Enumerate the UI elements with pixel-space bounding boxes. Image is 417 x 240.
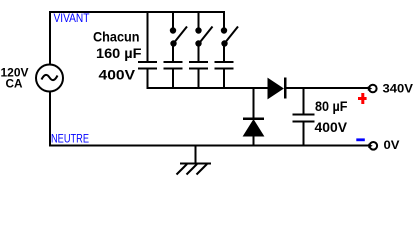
ground hatch 3	[197, 164, 208, 175]
wire S3 to C4	[223, 44, 225, 61]
wire column 3 lower	[198, 69, 200, 88]
ground bar	[180, 163, 211, 165]
wire left rail upper (bus to source)	[49, 11, 51, 64]
svg-text:0V: 0V	[384, 138, 400, 152]
diode D2 cathode bar	[243, 117, 264, 120]
AC source V1 sine symbol	[42, 75, 58, 80]
wire D2 to bottom bus	[253, 136, 255, 146]
switch S3 top contact dot	[221, 27, 227, 33]
svg-text:Chacun: Chacun	[93, 29, 140, 45]
switch S1 top contact dot	[170, 27, 176, 33]
ground hatch 1	[177, 164, 188, 175]
output terminal + circle	[369, 85, 377, 93]
wire bottom bus (NEUTRE)	[49, 145, 369, 147]
switch S2 bottom contact dot	[195, 40, 201, 46]
switch S3 blade	[226, 27, 238, 42]
capacitor C3 top plate	[189, 61, 208, 63]
wire D1 to output terminal	[286, 87, 369, 89]
wire output node down to C5	[303, 88, 305, 114]
wire capacitor-bank bottom bus to diode anode	[147, 87, 269, 89]
svg-text:VIVANT: VIVANT	[54, 11, 91, 25]
switch S3 stub	[223, 11, 225, 29]
ground hatch 2	[187, 164, 198, 175]
switch S2 blade	[201, 27, 213, 42]
svg-text:CA: CA	[6, 77, 23, 91]
label plus sign	[361, 93, 364, 104]
wire column 1 lower	[147, 69, 149, 88]
capacitor C2 top plate	[164, 61, 183, 63]
wire S1 to C2	[172, 44, 174, 61]
svg-text:160 µF: 160 µF	[96, 45, 142, 61]
switch S3 bottom contact dot	[221, 40, 227, 46]
capacitor C4 bottom plate	[215, 68, 234, 70]
output terminal + notch	[368, 86, 372, 91]
svg-text:400V: 400V	[315, 120, 348, 135]
wire C5 to bottom bus	[303, 122, 305, 146]
diode D1 series triangle	[268, 79, 283, 99]
switch S1 bottom contact dot	[170, 40, 176, 46]
capacitor C3 bottom plate	[189, 68, 208, 70]
capacitor C4 top plate	[215, 61, 234, 63]
wire column 1 (no switch)	[147, 11, 149, 61]
capacitor C5 bottom plate	[293, 121, 315, 123]
ground stem	[195, 146, 197, 163]
switch S2 stub	[198, 11, 200, 29]
diode D1 cathode bar	[284, 78, 287, 99]
wire top bus (VIVANT)	[49, 11, 225, 13]
output terminal - circle	[370, 142, 378, 150]
wire left rail lower (source to bottom bus)	[49, 92, 51, 146]
svg-text:80 µF: 80 µF	[315, 99, 348, 114]
switch S1 blade	[175, 27, 187, 42]
svg-text:340V: 340V	[383, 82, 414, 96]
capacitor C2 bottom plate	[164, 68, 183, 70]
switch S2 top contact dot	[195, 27, 201, 33]
AC source V1 circle	[36, 65, 63, 92]
capacitor C1 top plate	[138, 61, 157, 63]
wire column 4 lower	[223, 69, 225, 88]
svg-text:400V: 400V	[99, 67, 136, 83]
capacitor C5 top plate	[293, 114, 315, 116]
wire column 2 lower	[172, 69, 174, 88]
capacitor C1 bottom plate	[138, 68, 157, 70]
switch S1 stub	[172, 11, 174, 29]
svg-text:NEUTRE: NEUTRE	[51, 132, 89, 146]
label minus sign	[356, 138, 365, 141]
wire junction down to D2	[253, 88, 255, 118]
wire S2 to C3	[198, 44, 200, 61]
output terminal - notch	[368, 144, 372, 149]
diode D2 shunt triangle	[244, 120, 264, 136]
